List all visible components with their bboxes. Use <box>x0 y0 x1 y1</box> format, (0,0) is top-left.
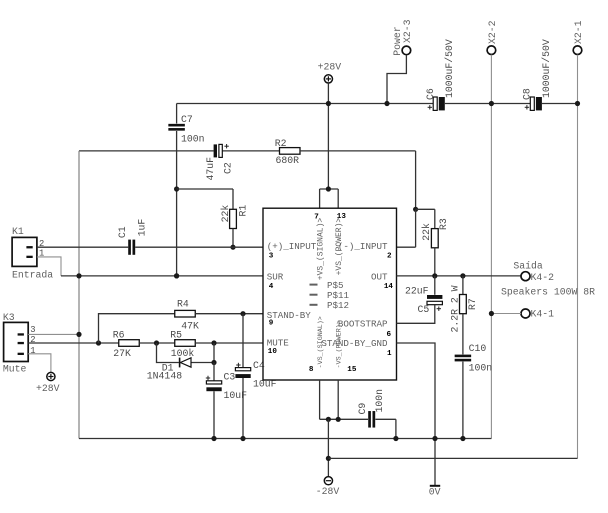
svg-text:C10: C10 <box>469 343 487 354</box>
svg-text:STAND-BY: STAND-BY <box>267 310 312 321</box>
svg-text:K3: K3 <box>3 312 15 323</box>
svg-text:Mute: Mute <box>3 364 27 375</box>
svg-text:X2-2: X2-2 <box>487 20 498 44</box>
svg-text:R1: R1 <box>238 205 249 217</box>
svg-text:22k: 22k <box>220 205 231 223</box>
svg-text:OUT: OUT <box>371 271 388 282</box>
svg-text:22k: 22k <box>421 223 432 241</box>
svg-text:2: 2 <box>387 253 392 261</box>
svg-text:C8: C8 <box>521 88 532 100</box>
svg-text:1: 1 <box>387 350 392 358</box>
svg-text:R3: R3 <box>438 218 449 230</box>
svg-text:X2-1: X2-1 <box>573 20 584 44</box>
svg-text:100n: 100n <box>181 133 205 144</box>
svg-text:10: 10 <box>268 348 278 356</box>
svg-text:2.2R 2 W: 2.2R 2 W <box>450 285 461 332</box>
svg-text:(+)_INPUT: (+)_INPUT <box>267 241 317 252</box>
svg-text:R4: R4 <box>177 299 189 310</box>
svg-text:C1: C1 <box>117 226 128 238</box>
svg-text:K4-2: K4-2 <box>531 272 555 283</box>
svg-text:100n: 100n <box>374 389 385 413</box>
svg-text:Speakers 100W 8R: Speakers 100W 8R <box>501 286 595 297</box>
svg-text:0V: 0V <box>429 487 441 498</box>
svg-text:R7: R7 <box>467 298 478 310</box>
svg-text:1N4148: 1N4148 <box>147 371 182 382</box>
svg-text:680R: 680R <box>276 155 300 166</box>
svg-text:K4-1: K4-1 <box>531 309 555 320</box>
svg-text:C3: C3 <box>224 372 236 383</box>
svg-text:47K: 47K <box>181 321 199 332</box>
svg-text:1uF: 1uF <box>137 219 148 237</box>
svg-text:C5: C5 <box>418 304 430 315</box>
svg-text:14: 14 <box>384 283 394 291</box>
svg-text:1000uF/50V: 1000uF/50V <box>444 39 455 98</box>
svg-text:8: 8 <box>309 366 314 374</box>
svg-text:-VS_(POWER)>: -VS_(POWER)> <box>336 320 344 368</box>
svg-text:15: 15 <box>347 366 357 374</box>
svg-text:3: 3 <box>30 325 35 335</box>
svg-text:27K: 27K <box>113 348 131 359</box>
svg-text:X2-3: X2-3 <box>402 19 413 43</box>
svg-text:C9: C9 <box>357 403 368 415</box>
svg-text:R2: R2 <box>275 138 287 149</box>
svg-text:+28V: +28V <box>36 383 60 394</box>
svg-text:(-)_INPUT: (-)_INPUT <box>338 241 388 252</box>
svg-text:-VS_(SIGNAL)>: -VS_(SIGNAL)> <box>317 316 325 368</box>
svg-text:2: 2 <box>30 335 35 345</box>
svg-text:K1: K1 <box>12 226 24 237</box>
svg-text:1: 1 <box>30 346 35 356</box>
svg-text:C7: C7 <box>181 114 193 125</box>
svg-text:P$12: P$12 <box>327 300 349 311</box>
svg-text:100n: 100n <box>469 362 493 373</box>
svg-text:1000uF/50V: 1000uF/50V <box>541 39 552 98</box>
svg-text:Entrada: Entrada <box>12 270 53 281</box>
svg-text:C2: C2 <box>222 162 233 174</box>
svg-text:3: 3 <box>269 253 274 261</box>
svg-text:R6: R6 <box>113 330 125 341</box>
svg-text:+VS_(SIGNAL)>: +VS_(SIGNAL)> <box>317 218 326 281</box>
svg-text:MUTE: MUTE <box>267 338 290 349</box>
svg-text:-28V: -28V <box>316 486 340 497</box>
svg-text:+VS_(POWER)>: +VS_(POWER)> <box>335 218 344 276</box>
svg-text:9: 9 <box>269 320 274 328</box>
svg-text:SUR: SUR <box>267 271 284 282</box>
svg-text:STAND-BY_GND: STAND-BY_GND <box>321 338 388 349</box>
svg-text:C6: C6 <box>425 88 436 100</box>
svg-text:4: 4 <box>269 283 274 291</box>
svg-text:22uF: 22uF <box>405 286 429 297</box>
svg-text:Saída: Saída <box>513 261 543 272</box>
svg-text:47uF: 47uF <box>205 157 216 181</box>
svg-text:BOOTSTRAP: BOOTSTRAP <box>338 319 388 330</box>
svg-text:+28V: +28V <box>318 62 342 73</box>
